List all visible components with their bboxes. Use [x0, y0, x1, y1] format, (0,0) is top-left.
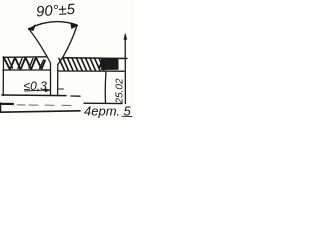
- right bevel edge with extension line: [58, 26, 77, 65]
- svg-text:90°±5: 90°±5: [36, 2, 77, 21]
- backing right edge line: [104, 72, 107, 103]
- right plate top surface: [63, 57, 127, 60]
- gap dimension arrowhead: [45, 89, 51, 92]
- gap dimension line: [25, 90, 51, 91]
- right dimension extension line: [124, 35, 126, 104]
- angle dimension arc: [29, 22, 78, 29]
- caption rule above Черт. 5: [84, 102, 122, 104]
- backing bottom line: [2, 94, 66, 97]
- svg-text:25.02: 25.02: [115, 78, 126, 104]
- arc right arrowhead: [71, 23, 79, 29]
- faded dashed line: [17, 104, 71, 107]
- backing bottom line dash: [71, 95, 80, 97]
- left plate bottom edge: [3, 69, 50, 71]
- left plate left edge: [2, 57, 4, 96]
- right plate hatching: [59, 58, 104, 71]
- svg-text:4epm.: 4epm.: [84, 104, 120, 119]
- underline under 5: [122, 115, 132, 117]
- arc left arrowhead: [29, 25, 36, 31]
- root gap left line: [50, 63, 52, 96]
- up arrowhead on extension line: [124, 34, 127, 40]
- left plate hatching: [4, 58, 45, 70]
- left margin vertical tick: [0, 103, 2, 112]
- right plate dark inked area: [101, 59, 119, 70]
- left margin thick segment: [0, 103, 13, 105]
- root gap right line: [57, 65, 59, 96]
- gap dimension right tick: [59, 88, 64, 90]
- left plate top surface: [3, 56, 47, 59]
- bottom border line: [0, 111, 80, 112]
- right plate bottom edge: [58, 70, 124, 72]
- left bevel edge with extension line: [29, 29, 51, 64]
